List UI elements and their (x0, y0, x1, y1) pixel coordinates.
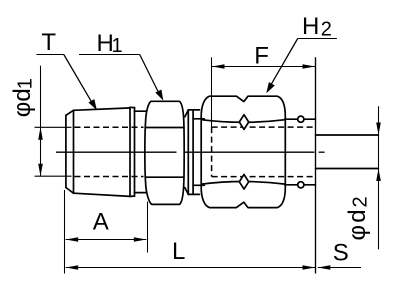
svg-text:F: F (254, 43, 269, 70)
svg-text:H: H (302, 13, 319, 40)
thread root hidden lines (75, 127, 144, 176)
dimension L (66, 57, 316, 273)
dimension phi d1 (35, 66, 72, 177)
svg-text:L: L (172, 238, 185, 265)
dimension S (318, 267, 361, 269)
dimension phi d2 (378, 106, 380, 249)
hex corner diamond bottom (239, 174, 248, 189)
hex nut H2 (across corners) (201, 96, 285, 207)
hex H1 (145, 101, 184, 204)
svg-text:φd: φd (9, 88, 36, 117)
label phi d1 (rotated) (9, 78, 37, 117)
dimension F (212, 57, 316, 127)
hex corner diamond top (239, 115, 248, 130)
svg-text:φd: φd (344, 207, 371, 240)
leader H1 (79, 55, 161, 97)
label phi d2 (rotated) (344, 196, 372, 240)
tube d2 (316, 135, 379, 169)
svg-text:S: S (333, 240, 349, 267)
internal thread hidden lines (212, 127, 316, 177)
socket cylinder (285, 119, 316, 185)
svg-text:2: 2 (350, 196, 372, 207)
collar / gland between hexes (185, 110, 204, 194)
svg-text:1: 1 (14, 78, 36, 89)
leader T (37, 55, 95, 107)
svg-text:T: T (41, 29, 56, 56)
leader H2 (269, 39, 337, 89)
centerline (56, 151, 325, 153)
dimension A (65, 190, 148, 274)
svg-text:A: A (93, 209, 109, 236)
weep hole bottom (298, 182, 304, 188)
svg-text:2: 2 (321, 18, 332, 40)
male taper thread T outline (66, 107, 147, 196)
svg-text:1: 1 (112, 35, 123, 57)
weep hole top (298, 116, 304, 122)
